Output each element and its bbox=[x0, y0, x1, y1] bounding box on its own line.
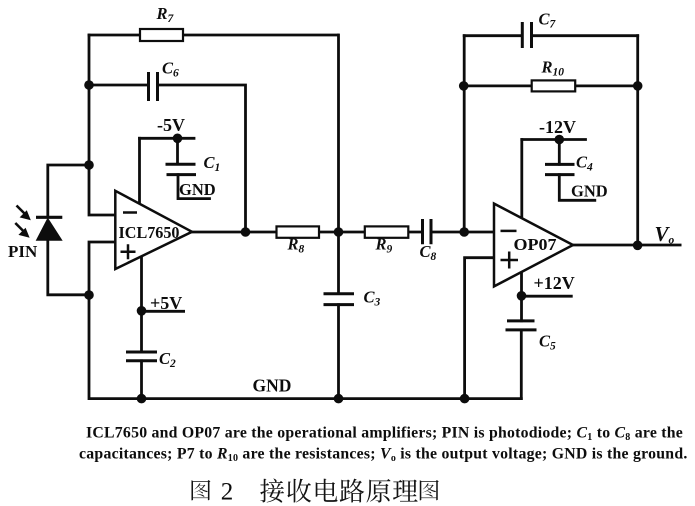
junction node U2 output/Vo bbox=[633, 241, 643, 251]
junction node R10 left/feedback bbox=[459, 81, 469, 91]
svg-text:OP07: OP07 bbox=[514, 235, 558, 254]
wire C8 to U2 inverting input bbox=[432, 231, 495, 234]
wire C1 bottom lead to GND bar bbox=[178, 175, 210, 199]
svg-text:+12V: +12V bbox=[534, 273, 575, 293]
wire feedback right vertical to output bbox=[636, 36, 639, 246]
junction node -12V/C4 bbox=[555, 135, 565, 145]
junction node +5V/C2 bbox=[137, 306, 147, 316]
wire R10 right lead bbox=[575, 85, 638, 88]
wire C2 bottom lead bbox=[140, 361, 143, 399]
junction node R8/R9/C3/R7 bbox=[334, 227, 344, 237]
photodiode PIN cathode bar bbox=[36, 216, 62, 219]
capacitor C7 plates bbox=[522, 22, 531, 48]
junction node C2/ground rail bbox=[137, 394, 147, 404]
wire +12V to U2 bottom pin, down to C5 bbox=[520, 269, 523, 321]
wire +12V label underline stub bbox=[522, 295, 572, 298]
svg-text:ICL7650 and OP07 are the opera: ICL7650 and OP07 are the operational amp… bbox=[86, 424, 683, 443]
op-amp U1 non-inverting pin mark bbox=[121, 244, 136, 259]
wire C6 left lead bbox=[89, 84, 147, 87]
capacitor C2 plates bbox=[126, 352, 157, 361]
wire C6 right lead down to output node bbox=[159, 85, 246, 232]
wire C5 bottom lead bbox=[520, 330, 523, 399]
svg-text:GND: GND bbox=[179, 180, 216, 199]
resistor R9 bbox=[365, 226, 409, 237]
wire R9 to C8 bbox=[408, 231, 422, 234]
svg-text:2: 2 bbox=[221, 478, 234, 505]
junction node +input/ground rail bbox=[460, 394, 470, 404]
junction node +12V/C5 bbox=[517, 291, 527, 301]
junction node C6/left bus bbox=[84, 80, 94, 90]
junction node C3/ground rail bbox=[334, 394, 344, 404]
op-amp U1 inverting pin mark bbox=[123, 211, 137, 214]
svg-text:+5V: +5V bbox=[150, 293, 182, 313]
junction node U1 output/C6 bbox=[241, 227, 251, 237]
wire non-inverting input of U1 bbox=[89, 242, 116, 295]
capacitor C4 plates bbox=[545, 164, 575, 174]
resistor R8 bbox=[277, 226, 320, 237]
wire C1 top lead bbox=[176, 138, 179, 164]
wire +5V to U1 bottom pin bbox=[140, 256, 143, 352]
op-amp U2 non-inverting pin mark bbox=[501, 252, 519, 269]
svg-text:ICL7650: ICL7650 bbox=[119, 223, 180, 242]
wire U1 output bbox=[192, 231, 277, 234]
wire +5V label underline stub bbox=[142, 310, 184, 313]
wire feedback left vertical (U2) bbox=[463, 36, 466, 232]
wire C4 bottom lead to GND bar bbox=[559, 175, 595, 201]
photodiode light arrow 2 bbox=[15, 223, 28, 237]
op-amp U2 inverting pin mark bbox=[501, 230, 517, 233]
op-amp U1 ICL7650 triangle bbox=[115, 191, 192, 269]
svg-text:-12V: -12V bbox=[539, 117, 576, 137]
wire photodiode anode branch bbox=[48, 240, 89, 295]
wire -12V to U2 top pin bbox=[520, 140, 523, 218]
wire photodiode cathode branch bbox=[48, 165, 89, 216]
junction node photodiode cathode bbox=[84, 160, 94, 170]
wire C3 bottom lead bbox=[337, 305, 340, 399]
photodiode PIN triangle bbox=[37, 219, 61, 240]
junction node R10 right/C7 bbox=[633, 81, 643, 91]
junction node photodiode anode bbox=[84, 290, 94, 300]
wire -5V rail stub bbox=[140, 137, 195, 140]
wire left vertical bus to inverting input bbox=[89, 35, 116, 215]
svg-text:GND: GND bbox=[253, 376, 292, 396]
wire ground rail bbox=[89, 295, 521, 399]
op-amp U2 OP07 triangle bbox=[494, 204, 573, 287]
svg-text:GND: GND bbox=[571, 182, 608, 201]
wire -12V rail stub bbox=[522, 138, 586, 141]
svg-text:PIN: PIN bbox=[8, 242, 38, 261]
wire C7 right lead bbox=[532, 34, 638, 37]
junction node U2 inverting input bbox=[459, 227, 469, 237]
wire U2 output to Vo bbox=[573, 244, 680, 247]
wire R7 top horizontal bbox=[89, 34, 338, 37]
capacitor C6 plates bbox=[149, 72, 158, 101]
wire R7 right side down to C3 node bbox=[337, 35, 340, 294]
capacitor C5 plates bbox=[506, 321, 537, 330]
wire C4 top lead bbox=[558, 140, 561, 165]
svg-text:-5V: -5V bbox=[157, 115, 185, 135]
figure caption Chinese: 图 2 接收电路原理图 bbox=[191, 478, 438, 505]
capacitor C8 plates bbox=[423, 219, 432, 244]
wire C7 left lead bbox=[464, 34, 521, 37]
junction node -5V/C1 bbox=[173, 134, 183, 144]
photodiode light arrow 1 bbox=[17, 206, 31, 220]
wire -5V to U1 top pin bbox=[138, 138, 141, 204]
capacitor C1 plates bbox=[166, 164, 197, 174]
wire R10 left lead bbox=[464, 85, 532, 88]
resistor R7 bbox=[140, 29, 183, 41]
svg-text:capacitances; P7 to R10 are th: capacitances; P7 to R10 are the resistan… bbox=[79, 445, 688, 464]
wire R8 to R9 bbox=[319, 231, 365, 234]
capacitor C3 plates bbox=[324, 294, 355, 305]
resistor R10 bbox=[532, 80, 576, 91]
wire U2 non-inverting input to ground bbox=[465, 258, 494, 399]
